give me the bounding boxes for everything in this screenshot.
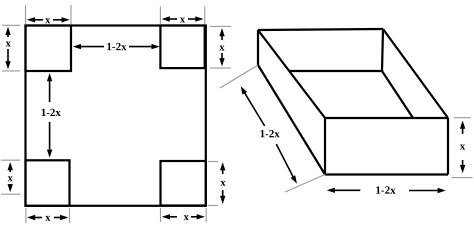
svg-text:x: x xyxy=(220,178,226,189)
svg-text:1-2x: 1-2x xyxy=(106,41,127,53)
svg-text:x: x xyxy=(45,213,51,224)
svg-text:x: x xyxy=(45,15,51,26)
svg-text:x: x xyxy=(460,140,466,152)
svg-text:x: x xyxy=(219,42,225,53)
svg-text:x: x xyxy=(8,173,14,184)
svg-text:1-2x: 1-2x xyxy=(375,185,396,197)
svg-text:x: x xyxy=(184,212,190,223)
svg-text:1-2x: 1-2x xyxy=(260,128,281,140)
svg-text:1-2x: 1-2x xyxy=(41,107,62,119)
svg-text:x: x xyxy=(6,38,12,49)
svg-text:x: x xyxy=(180,14,186,25)
